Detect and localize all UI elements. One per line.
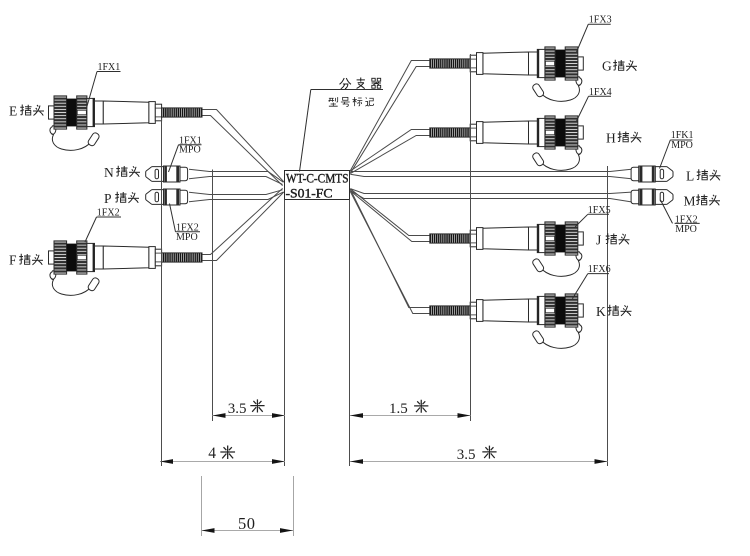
svg-text:1.5: 1.5 <box>389 401 408 417</box>
svg-text:1FX5: 1FX5 <box>588 205 611 216</box>
svg-text:E: E <box>9 104 17 119</box>
svg-text:1FX1: 1FX1 <box>98 62 121 73</box>
svg-text:4: 4 <box>208 445 216 462</box>
svg-text:WT-C-CMTS: WT-C-CMTS <box>286 171 349 186</box>
svg-text:-S01-FC: -S01-FC <box>286 186 333 201</box>
svg-text:MPO: MPO <box>675 224 697 235</box>
svg-text:H: H <box>606 131 616 146</box>
svg-text:MPO: MPO <box>671 140 693 151</box>
svg-text:1FX4: 1FX4 <box>589 87 612 98</box>
svg-text:P: P <box>104 191 112 206</box>
svg-text:MPO: MPO <box>176 232 198 243</box>
svg-text:MPO: MPO <box>179 145 201 156</box>
svg-text:1FX2: 1FX2 <box>97 207 120 218</box>
svg-text:J: J <box>596 233 601 248</box>
svg-text:L: L <box>686 169 694 184</box>
svg-text:3.5: 3.5 <box>228 401 247 417</box>
svg-text:1FX3: 1FX3 <box>589 14 612 25</box>
svg-text:1FX6: 1FX6 <box>588 264 611 275</box>
svg-text:M: M <box>684 194 696 209</box>
svg-text:G: G <box>602 59 612 74</box>
svg-text:50: 50 <box>238 514 256 533</box>
svg-text:3.5: 3.5 <box>457 447 476 463</box>
svg-text:K: K <box>596 304 606 319</box>
svg-text:N: N <box>104 165 114 180</box>
svg-text:F: F <box>9 253 17 268</box>
